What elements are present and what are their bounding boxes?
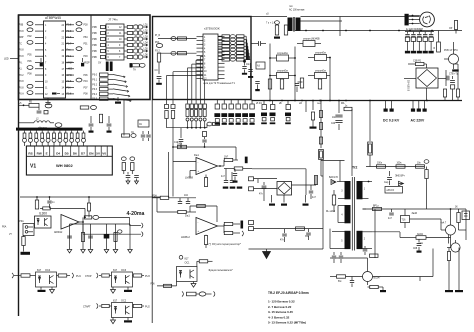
ground branch 1 (cap) (69, 224, 71, 249)
lower board left rail (151, 100, 153, 324)
svg-text:P0.A: P0.A (19, 93, 24, 96)
cap stub right of bus 2 (108, 116, 110, 123)
op-amp DA2 triangle (196, 218, 218, 235)
driver pin row 2 (197, 40, 204, 42)
Tr2 winding 4 bar (345, 205, 351, 223)
bleeder resistor R3 (437, 42, 441, 52)
svg-text:P0B: P0B (92, 45, 97, 47)
loop terminal 1 (142, 223, 143, 228)
svg-text:P0.8: P0.8 (67, 37, 72, 39)
svg-text:P0.8: P0.8 (19, 50, 24, 52)
OC3 grounds (112, 287, 114, 290)
svg-text:С10: С10 (174, 142, 179, 144)
right edge wire (465, 209, 467, 240)
dropper resistor stack R42 (319, 137, 322, 144)
DA1 ground bars (223, 187, 229, 189)
vertical resistor near bus (99, 114, 102, 123)
svg-text:DL-L21B: DL-L21B (326, 211, 336, 213)
OC4 grounds (40, 287, 42, 290)
output ground pad 2 (455, 290, 463, 292)
driver pin row 10 (197, 70, 204, 72)
svg-text:LD2: LD2 (144, 31, 149, 33)
bulk cap C41 (272, 101, 274, 105)
cap C22 47n (284, 229, 286, 233)
boxed fusible resistor R43 (319, 150, 324, 160)
svg-text:P08: P08 (84, 94, 89, 96)
opto row stubs (271, 57, 277, 59)
MCU pin row 9 left (35, 74, 44, 76)
MCU pin row 3 left (35, 36, 44, 38)
svg-text:C20: C20 (331, 123, 336, 125)
svg-text:(*) ОС) или терно резистор*: (*) ОС) или терно резистор* (209, 243, 241, 246)
driver pin row 11 (197, 74, 204, 76)
svg-text:СЗВ R1: СЗВ R1 (413, 61, 422, 63)
svg-text:P0A: P0A (2, 226, 7, 229)
optocoupler OC1 label (179, 255, 183, 259)
array cap 2 (250, 63, 252, 69)
cap C23 3n3 (308, 229, 310, 232)
pre-rail resistor pair 1 (443, 89, 446, 97)
resistor network TA (130, 63, 133, 67)
driver pin row 6 (197, 55, 204, 57)
svg-text:V1: V1 (30, 164, 36, 170)
DA1 sense cap C31 (204, 137, 206, 139)
svg-text:LD1: LD1 (144, 25, 149, 27)
svg-text:P0.2: P0.2 (19, 75, 24, 77)
svg-text:GN: GN (89, 151, 94, 155)
ground branch 5 (res) (115, 224, 117, 249)
Tr2 winding5 taps (332, 231, 345, 233)
svg-text:817: 817 (185, 257, 190, 260)
ladder common wire (167, 127, 208, 129)
OC1 lower input row (182, 291, 183, 296)
driver pin row 7 (197, 59, 204, 61)
svg-text:Сар: Сар (384, 182, 389, 184)
svg-text:СТОР: СТОР (85, 275, 92, 278)
svg-text:СТАРТ: СТАРТ (83, 306, 91, 309)
svg-text:ВАО1 Ю: ВАО1 Ю (329, 176, 339, 179)
DA2 output resistor to terminal (224, 231, 233, 234)
OC4 input resistor (14, 275, 21, 277)
svg-text:РСВ 13 ТРУс: РСВ 13 ТРУс (444, 50, 459, 52)
LCD header row (26, 155, 112, 157)
DA1 noninverting divider (190, 170, 196, 172)
divider resistor R44 (312, 101, 314, 111)
svg-text:P0.1: P0.1 (92, 80, 97, 82)
svg-text:3- 15 Витков 0.45: 3- 15 Витков 0.45 (268, 310, 293, 314)
aux resistor R4 top right (454, 21, 457, 30)
resistor under Tr2 right (370, 254, 379, 257)
svg-text:Фунция пользователя*: Фунция пользователя* (209, 269, 233, 272)
DA2 input resistor (160, 196, 169, 199)
Tr2 winding 1 bar (357, 181, 363, 199)
svg-text:ЗаоБ: ЗаоБ (412, 213, 418, 215)
Q8 emitter resistor (447, 252, 450, 261)
LCD pull resistor row (24, 131, 26, 133)
optocoupler OC4 (36, 272, 57, 287)
OC3 output resistor (133, 274, 142, 277)
svg-text:P0.7: P0.7 (67, 43, 72, 45)
display driver U3 DIP body (203, 34, 218, 80)
feedback wire lower (254, 188, 278, 190)
svg-text:P0.8: P0.8 (19, 31, 24, 33)
svg-text:P51: P51 (84, 43, 89, 45)
TL431 box T16 (401, 216, 410, 223)
bridge cap C9 (445, 70, 447, 86)
svg-text:AC 100 витков: AC 100 витков (289, 9, 305, 12)
resistor R5 with label (19, 104, 30, 106)
svg-text:PU.: PU. (19, 62, 23, 64)
svg-text:817: 817 (113, 269, 118, 272)
svg-text:PU3: PU3 (145, 275, 150, 278)
optocoupler OC2 (112, 303, 133, 318)
primary ground wire (249, 248, 324, 250)
feedback terminal 2 (249, 187, 254, 191)
loop terminal 2 (82, 222, 84, 234)
MCU pin row 10 right (66, 80, 75, 82)
svg-text:JT 74lx: JT 74lx (108, 18, 118, 22)
aux fuse resistor (368, 142, 373, 155)
startup resistor (332, 195, 335, 205)
MCU pin row 12 right (66, 93, 75, 95)
svg-text:RW: RW (37, 151, 42, 155)
Q5 collector pad (452, 69, 459, 71)
MCU pin row 4 left (35, 43, 44, 45)
OC2 output resistor (133, 304, 142, 307)
resistor ladder under driver (187, 100, 189, 104)
svg-text:GPI0: GPI0 (67, 75, 73, 77)
svg-text:DC 0.3 KV: DC 0.3 KV (383, 119, 400, 123)
DA2 load resistor (204, 236, 207, 245)
bridge rectifier BR2 (277, 182, 292, 196)
svg-text:СТВ +Тд: СТВ +Тд (449, 74, 459, 76)
svg-text:Pna: Pna (67, 50, 72, 52)
svg-text:LD4: LD4 (144, 43, 149, 45)
svg-text:P06: P06 (84, 75, 89, 77)
svg-text:P0B: P0B (19, 25, 24, 27)
DA3 feedback loop (43, 207, 51, 210)
svg-text:TC: TC (19, 43, 22, 45)
MCU pin row 5 left (35, 49, 44, 51)
dropper resistor stack R41 (319, 123, 322, 130)
supply box (138, 120, 149, 127)
svg-text:+H02: +H02 (67, 69, 73, 71)
feedback cap 1n (49, 197, 51, 200)
svg-text:P0.8: P0.8 (67, 81, 72, 83)
svg-text:ЭНЕ ВР+: ЭНЕ ВР+ (395, 176, 406, 178)
svg-text:цепи для Т2 Т3 накальных Т1: цепи для Т2 Т3 накальных Т1 (203, 83, 235, 85)
series resistor R45 to aux (344, 107, 352, 110)
MCU pin row 10 left (35, 80, 44, 82)
svg-text:P0A: P0A (67, 86, 72, 89)
cap C08 (418, 239, 420, 242)
svg-text:IP_R: IP_R (155, 35, 160, 37)
driver pin row 5 (197, 51, 204, 53)
4-20mA loop wire (99, 216, 130, 218)
MCU pin row 6 right (66, 55, 75, 57)
svg-text:4-20ma: 4-20ma (127, 211, 145, 217)
primary-side chain down (322, 176, 324, 249)
svg-text:E: E (46, 151, 48, 155)
mains wire to fan (301, 16, 420, 18)
svg-text:TR-2 EF-20 AIRGAP 0.5mm: TR-2 EF-20 AIRGAP 0.5mm (268, 291, 309, 295)
bias resistor pair R50 (166, 100, 168, 105)
svg-text:P3.8: P3.8 (67, 31, 72, 33)
resistor R20 vertical (35, 200, 38, 209)
svg-text:иО: иО (299, 103, 302, 105)
Q7 base cap (351, 277, 353, 281)
varistor R2 (284, 25, 287, 35)
MCU pin row 5 right (66, 49, 75, 51)
Tr2 winding3 bottom tap (338, 198, 345, 200)
svg-text:817: 817 (113, 299, 118, 302)
DA2 feedback (190, 205, 217, 207)
IL300 opto box U10 (35, 216, 52, 228)
Q6 base resistor (457, 213, 460, 223)
right edge connector box (462, 211, 470, 220)
Tr2 core lines (351, 177, 353, 251)
svg-text:D4: D4 (56, 151, 60, 155)
dropper resistor stack R40 (319, 111, 322, 118)
svg-text:P0.8: P0.8 (19, 56, 24, 58)
MCU left bypass cap C1 (40, 58, 42, 62)
svg-text:PU4: PU4 (76, 275, 81, 278)
LCD bus bar (16, 128, 83, 131)
ground bus wire (70, 223, 131, 225)
Q5 emitter cap (452, 76, 454, 79)
op-amp DA3 triangle (61, 215, 79, 230)
HV vertical from top rail (320, 101, 322, 149)
svg-text:P0B: P0B (92, 27, 97, 29)
driver pin row 9 (197, 66, 204, 68)
feedback terminal 1 (249, 177, 254, 181)
DA3 supply resistor (87, 203, 90, 211)
svg-text:TA: TA (133, 69, 136, 72)
bias resistor pair R51 (172, 100, 174, 105)
driver pin row 1 (197, 36, 204, 38)
pre-rail resistor pair 2 (456, 89, 459, 97)
driver pin row 4 (197, 47, 204, 49)
svg-text:LD6: LD6 (144, 55, 149, 57)
LCD module V1 outline (26, 146, 112, 175)
svg-text:OC2: OC2 (121, 299, 127, 302)
key fan-out arrows (113, 75, 124, 77)
bridge input resistor (408, 63, 415, 65)
svg-text:-: - (198, 161, 199, 164)
ground branch 6 (wire) (129, 224, 131, 249)
ground branch 4 (dcap) (106, 224, 108, 249)
MCU pin row 6 left (35, 55, 44, 57)
Q8 collector wire (455, 240, 457, 243)
bulk cap C42 (287, 101, 289, 105)
fan connector J2 (405, 14, 409, 26)
resistor R6 with label (80, 106, 89, 109)
svg-text:2- 7 Витков 0.22: 2- 7 Витков 0.22 (268, 305, 292, 309)
svg-text:P0.8: P0.8 (67, 25, 72, 27)
svg-text:С08: С08 (413, 248, 418, 250)
driver pin row 3 (197, 43, 204, 45)
Tr2 winding 3 bar (345, 181, 351, 199)
svg-text:ВС547: ВС547 (374, 278, 382, 280)
MCU board inner divider (90, 15, 92, 100)
bridge ground bars (271, 195, 273, 203)
Q7 base resistor (337, 275, 346, 278)
svg-text:P3.1: P3.1 (67, 56, 72, 58)
cap C20 47n (257, 179, 259, 183)
MCU U1 DIP body (44, 21, 66, 98)
svg-text:P0.8: P0.8 (19, 87, 24, 89)
snubber chain on secondary (366, 166, 424, 168)
AC input pads (412, 101, 414, 109)
driver pin row 12 (197, 78, 204, 80)
ground branch 3 (cap) (90, 224, 92, 249)
svg-text:P0.2: P0.2 (92, 84, 97, 86)
svg-text:A1.: A1. (19, 68, 23, 71)
varistor R1 (275, 25, 278, 35)
svg-text:-: - (198, 221, 199, 224)
MCU crystal X1 (52, 93, 57, 95)
svg-text:5- 13 Витков 0.22 (МГТФв): 5- 13 Витков 0.22 (МГТФв) (268, 321, 306, 325)
clamp diode box (385, 187, 403, 194)
loop bias resistor oval (118, 230, 122, 233)
svg-text:Da1: Da1 (185, 214, 190, 218)
transistor Q5 (449, 54, 459, 64)
driver pin row 8 (197, 62, 204, 64)
OC1 ground (193, 282, 195, 284)
rail stub x306 (305, 101, 307, 113)
svg-text:1- 120 Витков 0.32: 1- 120 Витков 0.32 (268, 300, 295, 304)
opto interconnect wires (269, 44, 271, 101)
MCU pin row 7 left (35, 61, 44, 63)
electrolytic cap row under driver (216, 100, 218, 104)
svg-text:P04: P04 (84, 81, 89, 83)
feedback terminal 3 (249, 221, 254, 225)
MCU pin row 3 right (66, 36, 75, 38)
resistor R30 (296, 227, 305, 230)
svg-text:P0B: P0B (92, 33, 97, 35)
svg-text:P0.3: P0.3 (92, 89, 97, 91)
board left edge rail (18, 15, 20, 316)
bulk cap C40 (263, 101, 265, 105)
driver left bus fan-out (200, 56, 203, 58)
svg-text:Da1: Da1 (194, 153, 199, 157)
OC2 grounds (112, 318, 114, 321)
optocoupler OC1 (177, 267, 198, 282)
array common node (243, 60, 246, 63)
svg-text:aT89PW45: aT89PW45 (45, 16, 61, 20)
feedback terminal 4 (249, 227, 254, 231)
mains rail top wire (251, 16, 287, 18)
svg-text:о31х: о31х (418, 243, 424, 245)
line transformer T1 windings (288, 18, 293, 32)
svg-text:4х4.7: 4х4.7 (441, 223, 447, 225)
driver bypass chain (157, 53, 160, 62)
Q7 emitter resistor (367, 282, 369, 286)
MCU pin row 4 right (66, 43, 75, 45)
board2 right-side caps (252, 43, 259, 45)
svg-text:OC4: OC4 (45, 269, 51, 272)
svg-text:4- 2 Витка 0.32: 4- 2 Витка 0.32 (268, 315, 290, 319)
contrast cap and ground (127, 172, 129, 175)
caps under Tr2 left (333, 252, 335, 255)
svg-text:7 u + 1 A: 7 u + 1 A (266, 22, 276, 25)
svg-text:x3739U3OK: x3739U3OK (204, 27, 220, 31)
svg-text:LED: LED (4, 58, 9, 61)
diode VD5 (322, 161, 324, 177)
svg-text:AD8012: AD8012 (54, 231, 63, 234)
X-cap bank (407, 32, 409, 34)
svg-text:Tr2: Tr2 (352, 166, 357, 170)
Tr2 winding4 taps (338, 205, 345, 207)
ground branch 2 (res) (82, 224, 84, 249)
svg-text:LD5: LD5 (144, 49, 149, 51)
MCU pin row 1 right (66, 24, 75, 26)
DA3 output resistor R22 (79, 221, 83, 223)
MCU right bypass cap C2 (82, 58, 84, 62)
contrast resistor 1 (121, 157, 126, 161)
left terminal box J3 (23, 224, 34, 236)
Q6 to Q8 link wire (448, 235, 450, 244)
mid row output filter (363, 208, 446, 210)
svg-text:P05: P05 (28, 55, 33, 57)
svg-text:P0B: P0B (92, 57, 97, 59)
svg-text:P02: P02 (28, 36, 33, 38)
optocoupler OC3 (112, 272, 133, 287)
Tr2 winding 5 bar (345, 231, 351, 249)
Tr2 primary top tap (337, 181, 345, 183)
svg-text:P03: P03 (84, 56, 89, 58)
svg-text:IL300: IL300 (39, 211, 47, 215)
svg-text:AR2P: AR2P (84, 61, 90, 64)
svg-text:D6: D6 (73, 151, 77, 155)
svg-text:ВР1о: ВР1о (373, 206, 379, 208)
svg-text:ABP: ABP (19, 36, 24, 39)
svg-text:P0.5: P0.5 (92, 99, 97, 101)
fan M1 (420, 12, 435, 27)
Tr2 secondary taps (363, 181, 373, 183)
OC1 output resistor top (197, 260, 199, 262)
DA1 input node wire (172, 136, 174, 197)
snubber network right of bridge (292, 184, 317, 186)
svg-text:P07: P07 (84, 87, 89, 89)
svg-text:ОР: ОР (449, 28, 453, 30)
MCU pin row 11 right (66, 87, 75, 89)
pull-down resistors row (268, 79, 271, 89)
svg-text:P0B: P0B (92, 51, 97, 53)
MCU pin row 1 left (35, 24, 44, 26)
output ground pad 1 (445, 290, 453, 292)
DA2 series resistor (178, 210, 187, 213)
MCU pin row 2 right (66, 30, 75, 32)
contrast resistor 2 (130, 157, 135, 161)
svg-text:P0A: P0A (19, 220, 24, 223)
film cap C10 (298, 81, 303, 83)
DA2 input caps (179, 198, 181, 201)
snubber end resistor vertical (424, 160, 429, 164)
cap under Tr2 right (364, 246, 366, 248)
DA1 output resistor chain (219, 165, 221, 167)
resistor R7 horizontal pair (122, 134, 130, 137)
series element on ladder wire (207, 122, 212, 126)
MCU pin row 7 right (66, 61, 75, 63)
svg-text:нР10 D: нР10 D (387, 190, 395, 192)
clamp diode symbol (399, 181, 404, 185)
svg-text:B OBY+B3: B OBY+B3 (409, 79, 411, 91)
wire from LCD section to DA2 (168, 152, 170, 198)
svg-text:817: 817 (37, 269, 42, 272)
zener VD3 (22, 237, 25, 246)
MCU pin row 8 right (66, 68, 75, 70)
